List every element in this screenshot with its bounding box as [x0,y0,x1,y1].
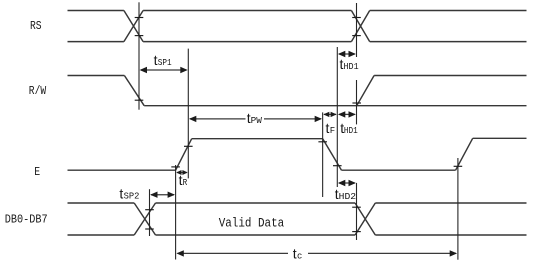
node reference line E x=322.65 [322,112,324,197]
node reference line G lower x=356.5 [356,183,358,240]
svg-text:Valid Data: Valid Data [219,216,285,231]
wire E low left [68,169,176,171]
svg-text:E: E [34,165,40,179]
wire RS bottom rail middle [143,41,351,43]
wire DB left crossover [134,203,155,235]
wire DB top rail left [68,202,135,204]
wire RW high right [374,75,526,77]
node reference line B x=149.5 [149,189,151,236]
svg-text:tPW: tPW [247,110,262,126]
wire DB bottom rail left [68,234,135,236]
node tick E rise right [454,165,463,167]
node tick E fall bottom [333,165,342,167]
dimension arrow tHD1 middle [338,111,356,117]
wire RS bottom rail left [68,41,124,43]
node tick RS left upper [135,17,144,19]
dimension arrow tc [176,250,457,256]
wire RW rising edge [357,76,374,106]
dimension arrow tSP2 [150,192,175,198]
dimension arrow tPW [189,116,322,122]
node tick E fall top [318,141,327,143]
wire E rising edge right [456,138,473,170]
dimension arrow tSP1 [140,67,188,73]
wire DB right crossover [355,203,375,235]
svg-text:tF: tF [326,120,336,136]
wire DB bottom rail middle [156,234,356,236]
node tick RS right upper [352,17,361,19]
node tick DB right upper [352,206,361,208]
node tick RS left lower [135,35,144,37]
wire RS top rail right [370,10,527,12]
node tick RW rise [352,102,361,104]
node tick DB left upper [145,209,154,211]
wire RS top rail left [68,10,124,12]
svg-text:tSP2: tSP2 [119,185,139,201]
svg-text:RS: RS [30,19,42,33]
wire DB bottom rail right [375,234,526,236]
wire E falling edge [323,139,342,171]
node tick RW fall [135,99,144,101]
dimension arrow tHD2 [338,180,356,186]
svg-text:tSP1: tSP1 [154,52,172,68]
svg-text:R/W: R/W [29,84,47,98]
svg-text:tHD1: tHD1 [340,120,358,136]
wire E low middle [342,169,456,171]
node reference line F x=337.3 [336,47,338,187]
dimension arrow tF [323,112,336,117]
wire RW falling edge [124,76,144,106]
node tick DB right lower [352,231,361,233]
svg-text:tHD1: tHD1 [340,56,359,72]
node tick DB left lower [145,228,154,230]
node reference line G upper x=356.5 [356,3,358,57]
wire RS left crossover [124,11,143,42]
svg-text:tc: tc [293,245,303,261]
wire DB top rail middle [156,202,356,204]
wire RW high left [68,75,125,77]
node reference line A x=139 [138,2,140,109]
dimension arrow tR [176,170,188,175]
node tick E rise top [184,145,193,147]
wire RS bottom rail right [370,41,527,43]
wire RS top rail middle [143,10,351,12]
wire E rising edge left [176,139,192,171]
svg-text:DB0-DB7: DB0-DB7 [5,213,48,227]
dimension arrow tHD1 top [338,51,356,57]
wire DB top rail right [375,202,526,204]
wire E high right [473,137,527,139]
node tick E rise bottom [171,166,180,168]
node reference line G middle x=356.5 [356,80,358,124]
node reference line H x=457.9 [457,158,459,260]
node tick RS right lower [352,35,361,37]
wire RS right crossover [351,11,369,42]
svg-text:tHD2: tHD2 [335,186,357,202]
wire RW low [144,105,526,107]
node reference line D x=188.3 [187,49,189,179]
wire E high [192,138,323,140]
node reference line C x=175.6 [175,165,177,260]
